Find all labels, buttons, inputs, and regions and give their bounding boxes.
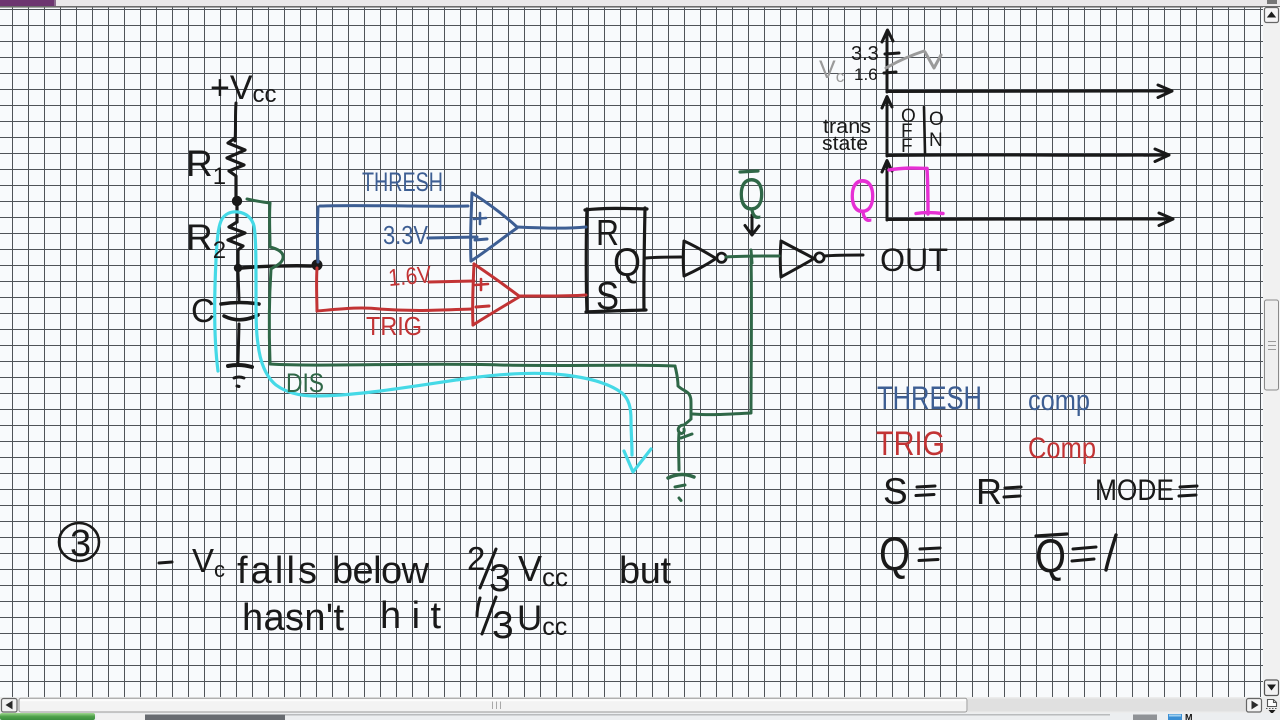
- svg-text:Q: Q: [738, 168, 765, 220]
- svg-text:DIS: DIS: [286, 368, 324, 398]
- svg-text:state: state: [822, 133, 868, 155]
- svg-text:comp: comp: [1028, 385, 1090, 417]
- svg-text:Q: Q: [1035, 529, 1066, 582]
- svg-text:OUT: OUT: [880, 242, 948, 278]
- svg-text:N: N: [929, 130, 943, 151]
- svg-text:3: 3: [489, 557, 511, 600]
- svg-text:C: C: [191, 292, 215, 329]
- svg-text:THRESH: THRESH: [362, 167, 443, 197]
- svg-text:below: below: [332, 550, 430, 592]
- svg-text:Comp: Comp: [1028, 432, 1096, 465]
- svg-text:TRIG: TRIG: [876, 425, 945, 463]
- svg-text:Q: Q: [879, 527, 910, 580]
- svg-text:F: F: [901, 136, 913, 157]
- svg-text:hasn't: hasn't: [242, 597, 344, 639]
- svg-text:S: S: [596, 275, 619, 318]
- svg-text:1.6: 1.6: [854, 65, 878, 84]
- svg-text:S: S: [883, 471, 908, 512]
- svg-text:3.3V: 3.3V: [383, 220, 429, 250]
- svg-text:MODE: MODE: [1095, 474, 1174, 507]
- svg-text:hit: hit: [380, 595, 441, 637]
- svg-text:2: 2: [467, 540, 485, 577]
- svg-text:Q: Q: [849, 171, 876, 224]
- svg-text:but: but: [619, 550, 671, 592]
- svg-text:M: M: [1185, 713, 1193, 720]
- svg-text:1.6V: 1.6V: [387, 261, 432, 292]
- svg-text:3: 3: [70, 523, 91, 565]
- svg-text:O: O: [929, 109, 944, 130]
- svg-text:THRESH: THRESH: [877, 380, 982, 416]
- svg-text:3: 3: [492, 604, 514, 647]
- svg-text:TRIG: TRIG: [366, 311, 422, 341]
- svg-text:3.3: 3.3: [851, 43, 879, 65]
- svg-text:R: R: [976, 471, 1002, 512]
